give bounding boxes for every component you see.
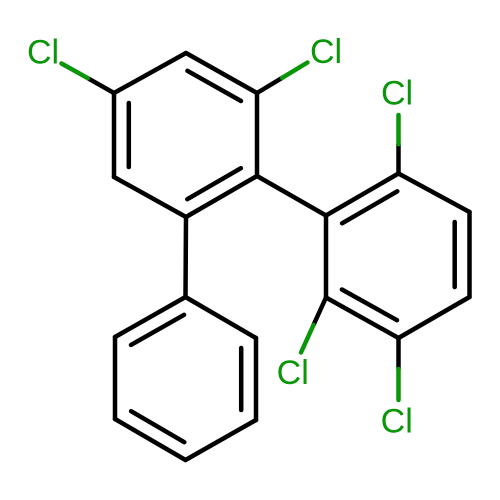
svg-text:Cl: Cl <box>381 403 413 441</box>
svg-text:Cl: Cl <box>310 33 342 71</box>
svg-text:Cl: Cl <box>27 34 59 72</box>
svg-text:Cl: Cl <box>381 74 413 112</box>
svg-text:Cl: Cl <box>277 354 309 392</box>
